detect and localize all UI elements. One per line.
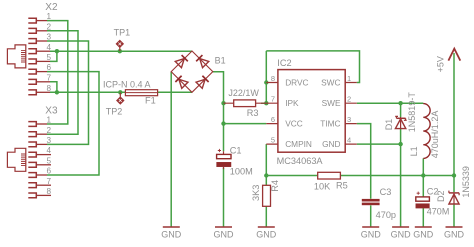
capacitor C1 [217,145,253,176]
svg-text:ICP-N 0.4 A: ICP-N 0.4 A [103,80,151,90]
node SWE/D1 [398,101,402,105]
X2 pin 4 [28,49,50,54]
svg-text:L1: L1 [409,146,419,156]
node X2 pins 4/5 [55,49,59,53]
wire D1 anode to GND row [400,129,402,145]
wire bridge left corner to GND [170,72,172,227]
ground symbol (bridge minus) [161,227,182,239]
wire L1 top stub [422,102,424,105]
svg-text:MC34063A: MC34063A [277,156,324,166]
X3 pin 1 [28,122,47,127]
wire VCC row to IC pin 6 [224,123,267,125]
wire X2.2 to X3.2 [47,31,78,134]
capacitor C2 [416,186,450,216]
svg-text:470p: 470p [376,210,396,220]
wire X2.8 to fuse F1 [57,91,126,93]
X2 pin 8 [28,90,50,95]
node VCC [221,121,225,125]
svg-text:1: 1 [347,74,351,83]
svg-text:DRVC: DRVC [285,77,308,87]
svg-text:B1: B1 [215,56,226,66]
svg-text:7: 7 [46,177,51,186]
IC2 pin stubs right [345,83,357,145]
pin numbers [271,74,351,145]
svg-text:GND: GND [391,229,412,239]
ground symbol (D1/IC) [391,227,412,239]
svg-text:R3: R3 [247,108,259,118]
svg-text:TP2: TP2 [106,107,123,117]
svg-text:GND: GND [413,229,434,239]
ground symbol (C3) [361,227,382,239]
svg-text:2: 2 [347,95,351,104]
X2 pin 3 [28,39,47,44]
X3 pin 4 [28,152,51,157]
wire L1 bottom to rail [422,158,424,175]
capacitor C3 [362,187,396,220]
svg-text:TP1: TP1 [114,28,131,38]
resistor R5 [314,172,348,191]
ground symbol (C1) [214,227,235,239]
diode D2 zener 1N5339 [436,166,471,204]
svg-text:J22/1W: J22/1W [228,88,259,98]
diode B1 top-left [175,55,188,68]
wire X2.6 to X3.6 [47,72,99,175]
wire TIMC pin3 to C3 [357,124,371,199]
node X2 pins 7/8 [55,90,59,94]
svg-text:D2: D2 [436,190,446,202]
wire D1 down [400,103,402,117]
wire node to R5 [266,175,317,177]
diode B1 top-right [196,55,209,68]
X3 pin 7 [28,183,51,188]
diode B1 bottom-left [175,76,188,89]
pin names [285,77,341,149]
diode B1 bottom-right [196,76,209,89]
svg-text:D1: D1 [384,119,394,131]
svg-text:10K: 10K [314,181,331,191]
svg-text:TIMC: TIMC [320,118,340,128]
wire SWE pin 2 to D1 to L1 [357,102,424,104]
wire bridge right corner to R3/VCC/C1 [213,72,224,152]
svg-text:5: 5 [46,156,51,165]
resistor R4 [251,180,280,206]
wire D1 junction down to GND [400,144,402,226]
svg-text:8: 8 [46,187,51,196]
node +5V/D2 [452,173,456,177]
node TP1 [118,49,122,53]
svg-text:GND: GND [361,229,382,239]
svg-text:470M: 470M [427,207,450,217]
svg-text:SWC: SWC [321,77,340,87]
svg-text:SWE: SWE [322,98,341,108]
ground symbol (C2) [413,227,434,239]
X3 pin 5 [28,162,51,167]
IC2 pin stubs left [266,83,278,145]
wire C3 bottom to GND [370,205,372,226]
svg-text:C1: C1 [230,145,242,155]
wire IC pin4 GND to D1 junction [357,143,401,145]
svg-text:3: 3 [347,115,351,124]
wire X2.4/5 tie [50,51,57,61]
svg-text:+5V: +5V [436,56,446,72]
X3 pin 6 [28,173,47,178]
X2 pin 1 [28,18,47,23]
node L1/C2 [421,173,425,177]
svg-text:1N5819-T: 1N5819-T [407,92,417,133]
svg-text:4: 4 [347,136,351,145]
svg-text:CMPIN: CMPIN [285,139,312,149]
IC2 MC34063A [266,58,357,166]
svg-text:R5: R5 [336,181,348,191]
resistor R3 [224,88,267,118]
wire rail to C2 [422,176,424,197]
svg-text:GND: GND [444,229,465,239]
svg-text:8: 8 [271,74,275,83]
wire C1 bottom to GND [223,168,225,227]
wire R5 right to +5V rail [340,175,454,177]
svg-text:3K3: 3K3 [251,185,261,201]
inductor L1 [423,104,430,159]
svg-text:GND: GND [161,229,182,239]
svg-text:F1: F1 [145,96,156,106]
test point TP1 [114,28,131,51]
test point TP2 [106,93,124,117]
X2 pin 5 [28,59,50,64]
wire D2 anode to GND [453,204,455,226]
wire CMPIN pin5 to feedback node [265,144,267,175]
wire F1 to bridge bottom [158,91,192,93]
svg-text:GND: GND [322,139,340,149]
X2 pin 6 [28,69,47,74]
svg-text:100M: 100M [230,166,253,176]
ground symbol (R4) [256,227,277,239]
node IPK [264,101,268,105]
svg-text:R4: R4 [270,180,280,192]
wire node to R4 [265,176,267,186]
ground symbol (D2) [444,227,465,239]
svg-text:IPK: IPK [285,98,299,108]
bridge rectifier B1 [171,51,225,92]
diamond outline [171,51,213,92]
svg-text:6: 6 [271,115,275,124]
wire VIN+ X2.4 to TP1 to bridge top [57,50,192,52]
fuse F1 [103,80,158,106]
X2 pin 2 [28,28,47,33]
wire R3 right to IC pin 7 and up to pin 8 [261,51,266,103]
wire top loop to SWC pin 1 [266,51,359,83]
wire rail to D2 cathode [453,176,455,193]
svg-text:VCC: VCC [285,118,303,128]
diode D1 1N5819 [384,92,417,133]
svg-text:C3: C3 [380,187,392,197]
X3 pin 8 [28,193,51,198]
svg-text:5: 5 [271,136,275,145]
+5V supply symbol [436,49,461,73]
node R3 left [221,101,225,105]
wire X2.1 to X3.1 [47,21,68,124]
connector X2 symbol body [7,45,25,68]
svg-text:GND: GND [256,229,277,239]
wire X2.3 to X3.3 [47,41,89,144]
svg-text:GND: GND [214,229,235,239]
svg-text:470uH/1.2A: 470uH/1.2A [430,111,440,159]
svg-text:4: 4 [46,146,51,155]
connector X3 symbol body [7,148,25,171]
svg-text:IC2: IC2 [277,58,291,68]
node GND/D1 [398,142,402,146]
node DRVC [264,80,268,84]
svg-text:1N5339: 1N5339 [461,166,471,198]
node TP2 [118,90,122,94]
svg-text:7: 7 [271,95,275,104]
X3 pin 3 [28,142,47,147]
X2 pin 7 [28,79,50,84]
node feedback [264,173,268,177]
wire C2 bottom to GND [422,208,424,226]
wire R4 bottom to GND [265,206,267,226]
wire rail up to +5V arrow [453,53,455,176]
X3 pin 2 [28,132,47,137]
wire X2.7/8 tie [50,82,57,93]
